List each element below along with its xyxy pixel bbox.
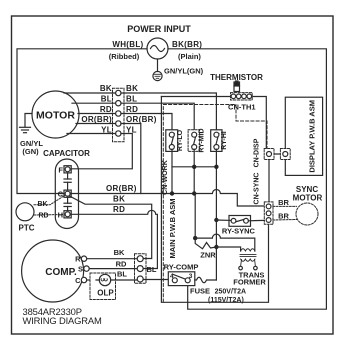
svg-text:CN-DISP: CN-DISP bbox=[254, 138, 261, 167]
svg-text:BR: BR bbox=[278, 212, 289, 221]
relay RY-HI bbox=[211, 130, 228, 152]
svg-text:RD: RD bbox=[100, 105, 112, 114]
label BL (after connector) bbox=[147, 265, 157, 274]
wire WH(BL) power line: left and down to capacitor C bbox=[17, 49, 147, 194]
svg-text:POWER INPUT: POWER INPUT bbox=[127, 24, 191, 34]
svg-text:RY-LO: RY-LO bbox=[177, 129, 184, 151]
wire BR sync motor bottom bbox=[273, 219, 297, 222]
junction dot power feed / RY-SYNC bbox=[214, 218, 218, 222]
label MAIN P.W.B ASM bbox=[168, 198, 177, 258]
svg-text:PTC: PTC bbox=[19, 224, 35, 233]
varistor ZNR bbox=[195, 238, 216, 259]
svg-text:FUSE: FUSE bbox=[190, 287, 210, 296]
wire motor RD to connector bbox=[78, 113, 116, 115]
title 3854AR2330P bbox=[23, 306, 82, 317]
label BK(BR) bbox=[172, 40, 202, 49]
connector CN-DISP pair bbox=[254, 138, 291, 167]
wire BL motor to RY-MID bbox=[121, 103, 194, 132]
connector CN-TH1 bbox=[161, 93, 266, 149]
label THERMISTOR bbox=[210, 73, 263, 82]
title WIRING DIAGRAM bbox=[23, 315, 102, 326]
label CN-WORK bbox=[162, 160, 169, 195]
label GN/YL(GN) bbox=[164, 67, 204, 76]
label CN-SYNC bbox=[254, 173, 261, 205]
junction dot OR rail / RY-LO bbox=[170, 191, 174, 195]
svg-text:CN-WORK: CN-WORK bbox=[162, 160, 169, 195]
svg-text:CN-SYNC: CN-SYNC bbox=[254, 173, 261, 205]
svg-text:RD: RD bbox=[38, 212, 48, 219]
svg-text:(115V/T2A): (115V/T2A) bbox=[208, 297, 244, 304]
wire motor BL to connector bbox=[72, 102, 116, 104]
junction dot ZNR right / power feed bbox=[214, 245, 218, 249]
label (115V/T2A) bbox=[208, 297, 244, 304]
relay RY-MID bbox=[188, 128, 206, 152]
label RD (comp S wire) bbox=[116, 259, 127, 268]
svg-text:WH(BL): WH(BL) bbox=[112, 40, 143, 49]
svg-text:RY-HI: RY-HI bbox=[221, 131, 228, 149]
wire motor YL to connector bbox=[67, 133, 116, 135]
capacitor symbol F-C bbox=[64, 173, 71, 190]
junction dot rail A / RY-MID bbox=[192, 165, 196, 169]
svg-text:(Ribbed): (Ribbed) bbox=[109, 52, 140, 61]
svg-text:BK: BK bbox=[37, 201, 47, 208]
display PWB box bbox=[285, 97, 322, 175]
svg-text:4: 4 bbox=[170, 273, 174, 280]
junction dot rail A / RY-HI feed bbox=[214, 165, 218, 169]
svg-text:CN-TH1: CN-TH1 bbox=[228, 103, 256, 112]
thermistor body bbox=[234, 81, 240, 92]
connector CN-SYNC (3 pins) bbox=[264, 202, 273, 224]
svg-text:RY-MID: RY-MID bbox=[199, 128, 206, 152]
svg-text:250V/T2A: 250V/T2A bbox=[215, 289, 247, 296]
junction dot OR rail / RY-MID bbox=[192, 191, 196, 195]
label WH(BL) bbox=[112, 40, 143, 49]
svg-text:C: C bbox=[58, 190, 64, 199]
svg-text:BK: BK bbox=[126, 84, 138, 93]
motor ground wire bbox=[25, 114, 32, 128]
wire RD motor to RY-LO bbox=[121, 114, 172, 133]
main PWB ASM dashed boundary bbox=[163, 105, 267, 303]
comp terminal S bbox=[78, 264, 139, 273]
svg-text:BL: BL bbox=[101, 95, 112, 104]
svg-text:R: R bbox=[75, 255, 81, 264]
svg-text:3: 3 bbox=[189, 273, 193, 280]
svg-text:OR(BR): OR(BR) bbox=[106, 184, 137, 193]
relay RY-COMP bbox=[164, 262, 199, 285]
svg-text:BL: BL bbox=[117, 269, 127, 278]
capacitor symbol C-H bbox=[64, 197, 71, 210]
svg-text:BK(BR): BK(BR) bbox=[172, 40, 202, 49]
svg-text:OR(BR): OR(BR) bbox=[126, 115, 157, 124]
wire BK(BR) power line: right, down right side, bottom rail to fuse area bbox=[168, 49, 326, 309]
svg-text:OR(BR): OR(BR) bbox=[81, 115, 112, 124]
svg-text:ZNR: ZNR bbox=[200, 251, 216, 260]
label BL (comp C wire) bbox=[117, 269, 127, 278]
wire BL comp connector to RY-COMP bbox=[144, 279, 173, 281]
fuse FUSE bbox=[190, 277, 216, 295]
junction dot ZNR / transformer node bbox=[193, 236, 197, 240]
comp terminal R bbox=[75, 255, 138, 264]
wire RY-SYNC to CN-SYNC bbox=[248, 219, 264, 221]
capacitor body outline bbox=[55, 159, 78, 229]
capacitor terminal H bbox=[58, 210, 72, 219]
wire OR rail down to ZNR node bbox=[194, 194, 196, 239]
svg-text:BL: BL bbox=[147, 265, 157, 274]
wire motor OR(BR) to connector bbox=[76, 123, 116, 125]
ground earth symbol under AC source bbox=[153, 59, 162, 81]
wire PTC BK dotted to capacitor C bbox=[34, 196, 65, 205]
svg-text:MOTOR: MOTOR bbox=[36, 110, 75, 122]
svg-text:BK: BK bbox=[114, 248, 125, 257]
labels motor wires right side bbox=[126, 84, 157, 134]
sync motor bbox=[293, 185, 323, 225]
label (Ribbed) bbox=[109, 52, 140, 61]
svg-text:MOTOR: MOTOR bbox=[293, 193, 323, 202]
svg-text:WIRING DIAGRAM: WIRING DIAGRAM bbox=[23, 315, 102, 326]
wire RY-HI bottom down to fuse (power feed) bbox=[215, 149, 217, 280]
wire YL motor to capacitor F bbox=[72, 134, 132, 169]
wire to transformer primary left bbox=[216, 247, 240, 251]
label BK (comp R wire) bbox=[114, 248, 125, 257]
label BR bottom bbox=[278, 212, 289, 221]
svg-text:RY-COMP: RY-COMP bbox=[164, 262, 199, 271]
label BK (ptc) bbox=[37, 201, 47, 208]
wire PTC RD dotted to capacitor H bbox=[34, 214, 64, 217]
svg-text:RY-SYNC: RY-SYNC bbox=[222, 227, 256, 236]
svg-text:RD: RD bbox=[116, 259, 127, 268]
labels motor wires left side bbox=[81, 84, 112, 134]
capacitor terminal C bbox=[58, 190, 72, 199]
svg-text:BL: BL bbox=[126, 95, 137, 104]
svg-text:C: C bbox=[75, 276, 81, 285]
svg-text:YL: YL bbox=[101, 125, 112, 134]
svg-text:DISPLAY P.W.B ASM: DISPLAY P.W.B ASM bbox=[308, 100, 317, 173]
svg-text:COMP.: COMP. bbox=[45, 267, 77, 278]
wire BK motor to RY-HI bbox=[121, 93, 216, 132]
PTC thermistor bbox=[16, 203, 35, 233]
label GN/YL (GN) bbox=[20, 139, 43, 156]
svg-text:BR: BR bbox=[278, 198, 289, 207]
svg-text:MAIN P.W.B ASM: MAIN P.W.B ASM bbox=[168, 198, 177, 258]
label CAPACITOR bbox=[43, 149, 90, 158]
wire power node to RY-SYNC bbox=[216, 219, 231, 221]
wire OR(BR) rail from capacitor C to CN-SYNC bbox=[70, 190, 264, 207]
transformer TRANS FORMER bbox=[233, 249, 266, 287]
capacitor terminal F bbox=[58, 165, 71, 174]
wire RY-MID bottom to OR rail bbox=[193, 149, 195, 193]
svg-text:RD: RD bbox=[126, 105, 138, 114]
wire CN-TH1 return: down left side and across bottom to CN-SYNC bbox=[161, 97, 268, 303]
wire RY-LO bottom to OR rail bbox=[171, 149, 173, 193]
label (Plain) bbox=[178, 52, 201, 61]
wire motor BK to connector bbox=[64, 92, 116, 94]
label BK (cap) bbox=[113, 195, 125, 204]
svg-text:BK: BK bbox=[100, 84, 112, 93]
svg-text:BK: BK bbox=[113, 195, 125, 204]
svg-text:(GN): (GN) bbox=[22, 147, 39, 156]
svg-text:(Plain): (Plain) bbox=[178, 52, 201, 61]
svg-text:FORMER: FORMER bbox=[233, 277, 266, 286]
wire CN-DISP down to CN-SYNC bbox=[268, 160, 270, 203]
motor ground symbol bbox=[20, 127, 31, 132]
label 250V/T2A bbox=[215, 289, 247, 296]
compressor COMP bbox=[22, 240, 84, 302]
label POWER INPUT bbox=[127, 24, 191, 34]
svg-text:F: F bbox=[58, 165, 63, 174]
fan motor M1 bbox=[32, 91, 79, 138]
overload protector OLP bbox=[90, 273, 139, 300]
comp terminal C bbox=[75, 276, 96, 285]
wire relay outputs rail bbox=[172, 166, 216, 168]
wire OR(BR) motor down to OR(BR) rail bbox=[121, 124, 141, 194]
label RD (cap) bbox=[113, 205, 125, 214]
wire BK capacitor C to comp connector bbox=[70, 196, 152, 259]
comp connector CN (3 pins) bbox=[135, 254, 147, 283]
label BR top bbox=[278, 198, 289, 207]
svg-text:RD: RD bbox=[113, 205, 125, 214]
AC source (power input) bbox=[147, 38, 168, 59]
relay RY-LO bbox=[166, 129, 184, 151]
relay RY-SYNC bbox=[222, 216, 256, 236]
wire to transformer primary right (with hop) bbox=[195, 234, 255, 251]
svg-text:OLP: OLP bbox=[97, 289, 114, 298]
label OR(BR) rail bbox=[106, 184, 137, 193]
svg-text:CAPACITOR: CAPACITOR bbox=[43, 149, 90, 158]
wire BR sync motor top bbox=[273, 205, 297, 207]
svg-text:GN/YL(GN): GN/YL(GN) bbox=[164, 67, 204, 76]
svg-text:S: S bbox=[78, 264, 83, 273]
label RD (ptc) bbox=[38, 212, 48, 219]
wire RD capacitor H to comp connector (with hop) bbox=[71, 210, 157, 268]
motor connector CN (5 pins) bbox=[113, 88, 125, 141]
